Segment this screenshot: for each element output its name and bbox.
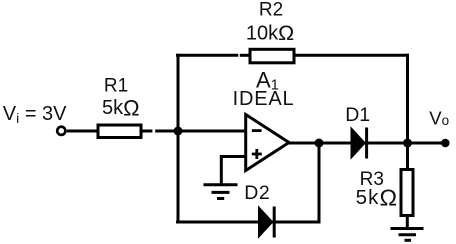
wire: left vertical (feedback loop left side)	[177, 54, 180, 224]
node: output junction	[315, 139, 324, 148]
svg-text:D1: D1	[345, 104, 370, 126]
svg-text:R2: R2	[259, 0, 283, 20]
svg-text:5kΩ: 5kΩ	[356, 185, 399, 211]
svg-text:10kΩ: 10kΩ	[246, 21, 294, 45]
wire: output junction down to D2 loop	[318, 143, 321, 224]
wire: R1 to inverting node (with small break)	[143, 130, 153, 133]
svg-text:D2: D2	[244, 182, 270, 204]
op-amp A1	[246, 115, 289, 171]
diode D2	[259, 207, 275, 238]
wire: right vertical down to R3	[406, 54, 409, 170]
svg-text:R1: R1	[104, 76, 128, 97]
wire: terminal to R1	[67, 130, 98, 133]
resistor R1	[98, 125, 141, 138]
terminal Vo (filled dot)	[441, 139, 450, 148]
node: inverting input junction	[174, 127, 183, 136]
resistor R2	[250, 49, 294, 63]
plus sign (non-inverting input)	[252, 153, 262, 156]
wire: R2 to right vertical	[296, 54, 410, 57]
wire: non-inverting input to ground	[221, 157, 245, 185]
wire: top horizontal to R2	[176, 54, 238, 57]
minus sign (inverting input)	[252, 129, 262, 132]
input terminal (open circle)	[57, 127, 65, 135]
ground (R3)	[391, 229, 424, 241]
wire: op-amp output to Vo	[288, 142, 443, 145]
ground (op-amp + input)	[204, 185, 238, 199]
diode D1	[351, 128, 367, 159]
node: right vertical junction	[403, 139, 412, 148]
resistor R3	[401, 170, 413, 216]
svg-text:IDEAL: IDEAL	[233, 88, 295, 110]
svg-text:5kΩ: 5kΩ	[102, 95, 140, 120]
wire: bottom horizontal (D2 branch)	[176, 221, 321, 224]
wire: R3 to ground	[406, 216, 409, 229]
svg-text:Vi = 3V: Vi = 3V	[3, 103, 67, 126]
